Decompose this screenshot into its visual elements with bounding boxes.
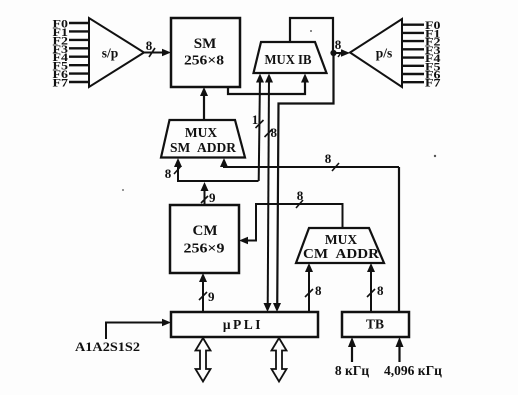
- clock input 4,096 kHz: [384, 337, 442, 378]
- wire data bus 8 between MUX IB and uPLI: [264, 74, 278, 313]
- svg-text:CM ADDR: CM ADDR: [303, 246, 379, 261]
- svg-text:F7: F7: [425, 76, 441, 90]
- speck noise dots: [122, 30, 436, 191]
- mux MUX CM ADDR: [296, 228, 384, 263]
- input line F4: [53, 50, 91, 64]
- wire MUX SM ADDR output to SM: [200, 87, 208, 120]
- svg-text:9: 9: [208, 289, 215, 304]
- memory SM 256x8: [171, 18, 240, 87]
- wire riser TB to horizontal bus: [398, 167, 400, 312]
- svg-text:SM: SM: [194, 36, 217, 52]
- svg-text:1: 1: [252, 112, 259, 127]
- wire TB bus 8 to MUX SM ADDR right input: [220, 151, 399, 171]
- wire MUX CM ADDR output bus 8 to CM address input: [239, 188, 343, 244]
- wire control input A1A2S1S2: [75, 319, 171, 354]
- svg-text:MUX IB: MUX IB: [265, 53, 312, 68]
- svg-text:CM: CM: [193, 223, 218, 239]
- input line F2: [53, 33, 91, 47]
- svg-text:4,096 кГц: 4,096 кГц: [384, 363, 442, 378]
- input line F7: [53, 76, 91, 90]
- input line F6: [53, 67, 91, 81]
- wire MUX IB output to p/s node: [290, 18, 333, 53]
- svg-text:256×9: 256×9: [184, 242, 225, 257]
- svg-text:s/p: s/p: [102, 46, 119, 61]
- memory CM 256x9: [170, 205, 239, 273]
- svg-text:9: 9: [209, 190, 216, 205]
- svg-text:8: 8: [165, 166, 172, 181]
- bidirectional port arrow right under uPLI: [272, 338, 287, 382]
- wire s/p to SM with bus width 8: [144, 38, 171, 57]
- clock input 8 kHz: [335, 337, 369, 378]
- output line F5: [402, 59, 441, 73]
- svg-text:8: 8: [315, 283, 322, 298]
- output line F6: [402, 68, 441, 82]
- svg-text:8: 8: [297, 188, 304, 203]
- wire junction to p/s with bus width 8: [333, 37, 350, 57]
- svg-text:p/s: p/s: [376, 46, 393, 61]
- bidirectional port arrow left under uPLI: [196, 338, 211, 382]
- output line F7: [402, 76, 441, 90]
- input line F5: [53, 59, 91, 73]
- svg-text:8: 8: [146, 38, 153, 53]
- wire control bit 1 from MUX IB down to MUX SM ADDR bus: [252, 74, 264, 182]
- wire CM bus 9 between CM and uPLI: [199, 273, 215, 312]
- svg-text:8: 8: [271, 125, 278, 140]
- output line F1: [402, 26, 441, 40]
- svg-text:8: 8: [325, 151, 332, 166]
- wire SM output to MUX IB input: [228, 74, 309, 95]
- mux MUX IB: [254, 42, 327, 73]
- input line F0: [53, 17, 91, 31]
- timebase TB: [342, 312, 409, 337]
- wire p/s node down to uPLI: [273, 53, 334, 312]
- svg-text:8 кГц: 8 кГц: [335, 363, 369, 378]
- svg-text:8: 8: [377, 283, 384, 298]
- svg-text:ТВ: ТВ: [366, 317, 384, 332]
- svg-text:MUX: MUX: [185, 125, 217, 140]
- svg-text:μPLI: μPLI: [223, 317, 263, 332]
- wire CM output bus 9 up to MUX SM ADDR input line: [201, 182, 217, 205]
- serial/parallel converter s/p: [89, 18, 144, 87]
- node p/s input junction: [330, 50, 336, 56]
- svg-text:F7: F7: [53, 76, 69, 90]
- wire horizontal bus to MUX SM ADDR left input, width 8: [165, 158, 259, 181]
- output line F3: [402, 43, 441, 57]
- input line F1: [53, 25, 91, 39]
- svg-text:256×8: 256×8: [184, 54, 224, 69]
- processor interface uPLI: [171, 312, 318, 337]
- svg-text:SM ADDR: SM ADDR: [170, 140, 236, 155]
- wire TB bus 8 to MUX CM ADDR right input: [367, 263, 384, 312]
- svg-text:MUX: MUX: [325, 232, 357, 247]
- output line F2: [402, 35, 441, 49]
- mux MUX SM ADDR: [161, 120, 245, 158]
- parallel/serial converter p/s: [350, 19, 402, 87]
- output line F0: [402, 18, 441, 32]
- output line F4: [402, 51, 441, 65]
- svg-text:8: 8: [335, 37, 342, 52]
- input line F3: [53, 42, 91, 56]
- svg-text:A1A2S1S2: A1A2S1S2: [75, 339, 140, 354]
- wire uPLI bus 8 to MUX CM ADDR left input: [305, 263, 322, 312]
